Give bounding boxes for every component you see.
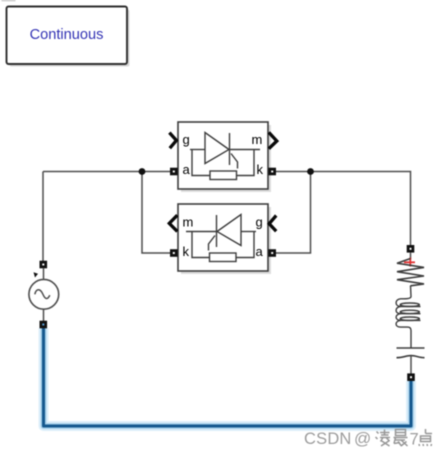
U1 snubber wiring — [192, 150, 254, 176]
U2 snubber resistor — [210, 253, 237, 262]
Z1 lead from top port — [410, 253, 412, 260]
U1 gate input chevron — [169, 133, 176, 149]
U1 snubber resistor — [210, 171, 237, 180]
wire: left horizontal to junction A — [43, 171, 170, 173]
svg-text:g: g — [183, 132, 190, 147]
watermark glyph 凌 — [376, 430, 391, 447]
thyristor block U2 (mirrored) — [169, 204, 276, 274]
powergui block Continuous — [7, 7, 130, 67]
series RLC branch Z1 — [396, 245, 424, 381]
U2 body shadow — [181, 207, 271, 274]
V1 lead top — [43, 268, 45, 280]
node A junction dot — [139, 168, 146, 175]
U1 port a square — [170, 168, 178, 176]
V1 circle — [29, 279, 59, 309]
U2 gate input chevron — [269, 216, 276, 232]
U1 thyristor symbol — [190, 133, 260, 169]
svg-text:@: @ — [354, 429, 371, 448]
svg-text:Continuous: Continuous — [30, 27, 104, 43]
V1 lead bottom — [43, 310, 45, 321]
svg-text:a: a — [256, 244, 264, 259]
wire: junction A down to thyristor2 k port — [142, 172, 170, 254]
Z1 red plus polarity — [404, 258, 415, 267]
U2 port k square — [170, 249, 178, 257]
wire: junction B down to thyristor2 a port — [276, 172, 311, 254]
U2 snubber wiring — [192, 232, 254, 258]
AC voltage source V1 — [29, 261, 59, 329]
Z1 capacitor top plate — [397, 347, 425, 349]
svg-text:g: g — [256, 215, 263, 230]
V1 polarity arrow — [34, 272, 39, 277]
wire: AC source top to left corner — [42, 172, 44, 262]
cropped artifact at top edge — [2, 0, 16, 1]
U2 port a square — [268, 249, 276, 257]
Z1 capacitor bottom plate — [397, 356, 425, 358]
U1 m output chevron — [269, 132, 277, 148]
wire: thyristor1 k port to junction B and to RLC top — [276, 172, 411, 246]
U2 body box — [178, 204, 268, 271]
U2 m output chevron — [169, 215, 177, 231]
U2 thyristor symbol — [186, 215, 256, 251]
U1 port k square — [268, 168, 276, 176]
Z1 inductor coil — [396, 286, 420, 349]
svg-text:a: a — [183, 162, 191, 177]
V1 bottom port square — [40, 321, 48, 329]
svg-text:k: k — [183, 244, 190, 259]
U1 body box — [178, 122, 268, 189]
Z1 bottom port square — [407, 373, 415, 381]
thyristor block U1 — [169, 122, 276, 192]
Z1 top port square — [407, 245, 415, 253]
svg-text:CSDN: CSDN — [304, 430, 352, 448]
watermark CSDN — [304, 429, 432, 449]
U1 body shadow — [181, 125, 271, 192]
watermark glyph 点 — [419, 429, 432, 446]
svg-text:m: m — [252, 132, 263, 147]
svg-text:m: m — [183, 215, 194, 230]
watermark glyph 晨 — [394, 430, 408, 447]
V1 sine wave — [35, 290, 50, 299]
Z1 resistor zigzag — [397, 259, 424, 286]
svg-text:7: 7 — [410, 431, 419, 449]
node B junction dot — [307, 168, 314, 175]
Z1 lead to bottom port — [410, 356, 412, 374]
svg-text:k: k — [257, 162, 264, 177]
blue selected wire: AC bottom - bottom rail - RLC bottom — [44, 328, 412, 426]
V1 top port square — [40, 261, 48, 269]
